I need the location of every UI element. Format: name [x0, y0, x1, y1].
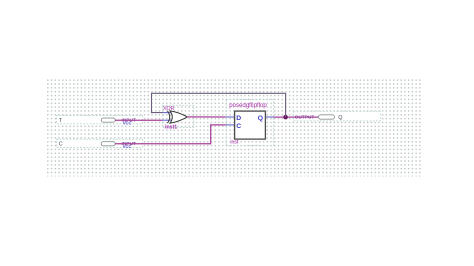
input pin C symbol shape [101, 142, 115, 146]
feedback wire Q to XOR input [152, 93, 286, 117]
flip-flop pin stubs D C Q [226, 116, 234, 118]
xor gate body [170, 111, 187, 123]
xor gate inst1 [163, 105, 194, 130]
input pin T [56, 116, 142, 126]
svg-text:C: C [59, 142, 63, 148]
input pin C [56, 139, 142, 149]
svg-text:Q: Q [258, 115, 263, 122]
svg-text:VCC: VCC [123, 120, 132, 125]
svg-text:inst: inst [230, 139, 239, 145]
output pin Q symbol shape [319, 115, 335, 119]
svg-text:posedgflipflop: posedgflipflop [229, 102, 267, 109]
svg-text:VCC: VCC [123, 144, 132, 149]
wire T to XOR input [115, 119, 162, 121]
wire XOR output to flip-flop D input [187, 116, 226, 118]
svg-text:C: C [236, 123, 241, 130]
output pin Q [293, 111, 380, 121]
svg-text:Q: Q [338, 115, 342, 121]
junction node on Q net [283, 115, 288, 120]
d flip-flop inst (posedgflipflop) [226, 99, 273, 145]
svg-text:inst1: inst1 [165, 125, 177, 131]
xor gate back arc [168, 111, 170, 123]
svg-text:D: D [236, 115, 241, 122]
flip-flop body [235, 111, 266, 139]
xor input pin stubs [163, 112, 173, 114]
svg-text:XOR: XOR [163, 106, 174, 112]
wire C to flip-flop clock input [115, 125, 226, 144]
wire Q to output pin [274, 116, 319, 118]
input pin T symbol shape [101, 118, 115, 122]
wire segment inside output pin box [293, 116, 318, 118]
svg-text:OUTPUT: OUTPUT [295, 115, 315, 121]
